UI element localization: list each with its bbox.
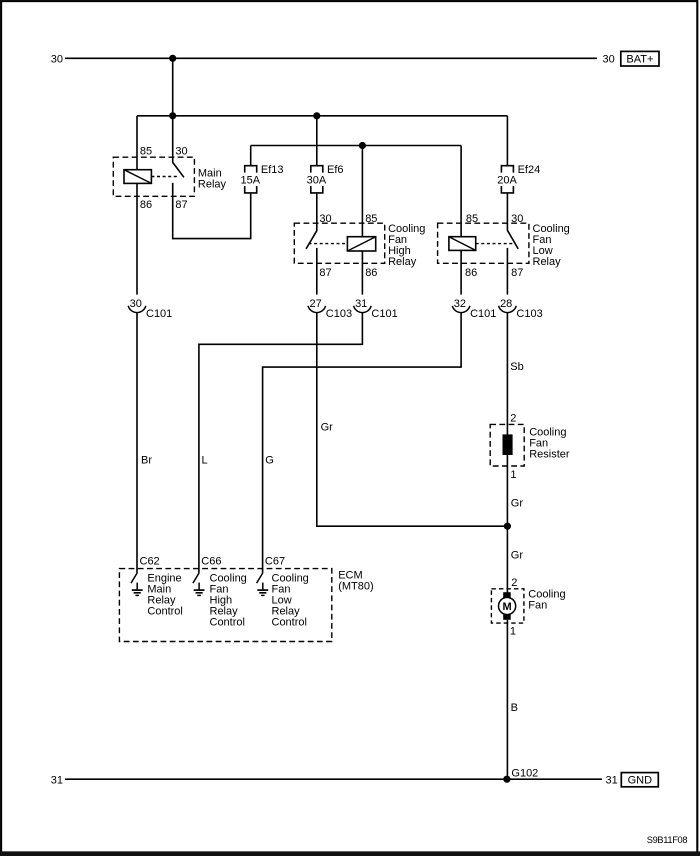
wire fuse Ef13 top to coil feed line bbox=[250, 146, 252, 166]
svg-text:85: 85 bbox=[365, 213, 377, 225]
svg-text:86: 86 bbox=[140, 199, 152, 211]
svg-text:87: 87 bbox=[319, 267, 331, 279]
svg-text:C67: C67 bbox=[265, 556, 285, 568]
svg-text:Ef24: Ef24 bbox=[518, 164, 541, 176]
node BAT+ box bbox=[621, 51, 659, 66]
wire Gr high speed feed to motor node bbox=[317, 313, 508, 527]
svg-text:27: 27 bbox=[309, 298, 321, 310]
svg-text:Gr: Gr bbox=[511, 550, 524, 562]
relay switch arm pin30-pin87 (high) bbox=[306, 231, 317, 249]
svg-text:(MT80): (MT80) bbox=[338, 581, 373, 593]
svg-text:C101: C101 bbox=[146, 308, 172, 320]
svg-text:Control: Control bbox=[210, 617, 245, 629]
dashed actuator link (low) bbox=[476, 243, 515, 245]
wire second feed bus bbox=[137, 115, 507, 117]
svg-text:C103: C103 bbox=[516, 308, 542, 320]
connector pin 30 C101 bbox=[128, 306, 146, 313]
motor Cooling Fan box bbox=[491, 589, 524, 623]
svg-text:87: 87 bbox=[511, 267, 523, 279]
junction ground node G102 bbox=[503, 776, 510, 783]
motor terminal bottom bbox=[503, 614, 511, 619]
fuse Ef6 30A bbox=[311, 166, 323, 173]
relay switch arm pin30-pin87 (low) bbox=[507, 230, 518, 249]
resistor element bbox=[503, 434, 513, 455]
svg-text:B: B bbox=[511, 702, 518, 714]
svg-text:Resister: Resister bbox=[529, 449, 570, 461]
svg-text:L: L bbox=[202, 454, 208, 466]
junction coil feed / high relay 85 bbox=[359, 142, 366, 149]
motor circle M bbox=[499, 597, 516, 614]
svg-text:Sb: Sb bbox=[510, 361, 523, 373]
svg-text:GND: GND bbox=[628, 775, 653, 787]
relay switch arm pin30-pin87 bbox=[173, 162, 184, 177]
wire G low relay control to ECM C67 bbox=[263, 313, 462, 573]
ECM (MT80) box bbox=[119, 569, 331, 642]
svg-text:Ef6: Ef6 bbox=[327, 164, 344, 176]
svg-text:Gr: Gr bbox=[511, 498, 524, 510]
wire low relay pin 85 drop bbox=[460, 146, 462, 237]
resistor Cooling Fan Resister box bbox=[490, 424, 524, 466]
svg-text:C62: C62 bbox=[140, 556, 160, 568]
node GND box bbox=[621, 773, 658, 787]
svg-text:85: 85 bbox=[140, 146, 152, 158]
fuse Ef24 20A bbox=[501, 166, 513, 173]
svg-text:C103: C103 bbox=[326, 308, 352, 320]
svg-text:Fan: Fan bbox=[528, 600, 547, 612]
svg-text:85: 85 bbox=[466, 213, 478, 225]
wire high relay pin 86 to connector bbox=[361, 251, 363, 295]
svg-text:S9B11F08: S9B11F08 bbox=[647, 835, 688, 845]
wire from bus 30 down to main relay pin 30 bbox=[172, 58, 174, 163]
wire Ef6 top bbox=[316, 116, 318, 166]
svg-text:BAT+: BAT+ bbox=[626, 54, 653, 66]
wire high relay pin 87 to connector bbox=[316, 248, 318, 295]
wire L high relay control to ECM C66 bbox=[199, 313, 363, 573]
svg-text:1: 1 bbox=[510, 626, 516, 638]
svg-text:28: 28 bbox=[500, 298, 512, 310]
relay coil (high) bbox=[347, 237, 375, 251]
svg-text:Control: Control bbox=[272, 617, 307, 629]
ECM driver switch and ground C66 bbox=[193, 573, 199, 583]
svg-text:30: 30 bbox=[51, 53, 63, 65]
svg-text:31: 31 bbox=[606, 774, 618, 786]
svg-text:M: M bbox=[503, 601, 512, 613]
wire Sb low relay out to resistor bbox=[506, 313, 508, 598]
relay coil (low) bbox=[449, 237, 476, 251]
wire main relay pin 86 down to C101 bbox=[136, 183, 138, 294]
svg-text:30: 30 bbox=[130, 298, 142, 310]
connector pin 28 C103 bbox=[499, 306, 517, 313]
svg-text:30A: 30A bbox=[307, 175, 327, 187]
svg-text:32: 32 bbox=[454, 298, 466, 310]
svg-text:30: 30 bbox=[511, 213, 523, 225]
svg-text:86: 86 bbox=[365, 267, 377, 279]
svg-text:Relay: Relay bbox=[388, 256, 417, 268]
wire bus 30 BAT+ bbox=[65, 57, 597, 59]
svg-text:Relay: Relay bbox=[533, 256, 562, 268]
wire main relay pin 87 to fuse Ef13 bbox=[173, 183, 251, 239]
svg-text:C101: C101 bbox=[470, 308, 496, 320]
wire low relay pin 87 to connector bbox=[506, 248, 508, 295]
svg-text:15A: 15A bbox=[241, 175, 261, 187]
svg-text:G: G bbox=[265, 454, 274, 466]
ECM driver switch and ground C67 bbox=[257, 573, 263, 583]
wire Ef24 top bbox=[506, 116, 508, 166]
svg-text:G102: G102 bbox=[511, 768, 538, 780]
svg-text:87: 87 bbox=[175, 199, 187, 211]
svg-text:Control: Control bbox=[147, 606, 182, 618]
wire B motor to ground bus bbox=[506, 620, 508, 779]
fuse Ef13 15A bbox=[245, 166, 257, 173]
svg-text:2: 2 bbox=[511, 577, 517, 589]
relay Main Relay box bbox=[113, 157, 194, 196]
wire bus 31 GND bbox=[65, 778, 602, 780]
svg-text:86: 86 bbox=[465, 267, 477, 279]
dashed actuator link bbox=[151, 176, 179, 178]
svg-text:20A: 20A bbox=[497, 175, 517, 187]
svg-text:Gr: Gr bbox=[321, 422, 334, 434]
connector pin 31 C101 bbox=[354, 306, 372, 313]
svg-text:30: 30 bbox=[603, 53, 615, 65]
relay coil Main Relay bbox=[124, 170, 151, 184]
wire Ef24 bottom to low relay pin 30 bbox=[506, 193, 508, 231]
svg-text:C101: C101 bbox=[371, 308, 397, 320]
wire coil feed line bbox=[251, 145, 461, 147]
svg-text:Relay: Relay bbox=[198, 178, 227, 190]
svg-text:30: 30 bbox=[319, 213, 331, 225]
connector pin 32 C101 bbox=[452, 306, 470, 313]
wire down to main relay pin 85 bbox=[136, 116, 138, 170]
svg-text:Br: Br bbox=[141, 454, 152, 466]
junction second bus / fuse Ef6 tap bbox=[313, 112, 320, 119]
wire high relay pin 85 drop bbox=[361, 146, 363, 237]
svg-text:Ef13: Ef13 bbox=[261, 164, 284, 176]
wire low relay pin 86 to connector bbox=[460, 250, 462, 294]
svg-text:C66: C66 bbox=[201, 556, 221, 568]
ECM driver switch and ground C62 bbox=[131, 573, 137, 583]
wire Ef6 bottom to high relay pin 30 bbox=[316, 193, 318, 231]
relay Cooling Fan High Relay box bbox=[294, 223, 384, 263]
dashed actuator link (high) bbox=[309, 243, 348, 245]
connector pin 27 C103 bbox=[308, 306, 326, 313]
svg-text:1: 1 bbox=[510, 469, 516, 481]
junction motor feed node bbox=[504, 523, 511, 530]
svg-text:30: 30 bbox=[175, 146, 187, 158]
junction on bus 30 bbox=[169, 55, 176, 62]
relay Cooling Fan Low Relay box bbox=[438, 223, 529, 263]
svg-text:31: 31 bbox=[355, 298, 367, 310]
svg-text:31: 31 bbox=[51, 774, 63, 786]
motor terminal top bbox=[503, 592, 511, 597]
svg-text:2: 2 bbox=[510, 412, 516, 424]
wire Br main relay control to ECM C62 bbox=[136, 313, 138, 573]
junction second bus / main relay 30 bbox=[169, 112, 176, 119]
